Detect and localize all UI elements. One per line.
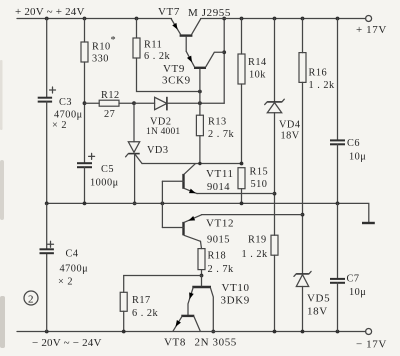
node: C3 tap on input rail (45, 17, 49, 21)
svg-text:10μ: 10μ (349, 287, 366, 298)
node: VT11 emitter junction on VD4/R19 column (273, 192, 277, 196)
svg-text:1 . 2k: 1 . 2k (242, 249, 269, 260)
resistor R15 510 (238, 167, 268, 204)
transistor VT9 3CK9 (162, 51, 224, 103)
wire: VT11/VT12 base link (161, 181, 163, 227)
node: R18 bottom / VT10 base junction (200, 274, 204, 278)
svg-text:18V: 18V (307, 306, 328, 318)
resistor R10 330 (81, 19, 116, 65)
svg-text:R17: R17 (132, 295, 151, 306)
svg-text:R10: R10 (92, 42, 111, 53)
node: R10 tap on input rail (83, 17, 87, 21)
svg-text:2: 2 (28, 294, 34, 306)
svg-text:C5: C5 (101, 164, 114, 175)
node: R12/VD2/VD3 junction (132, 101, 136, 105)
wire: R17 feed from VT10 base node (124, 275, 202, 277)
wire: VD4 column from output rail (274, 19, 276, 102)
svg-text:9015: 9015 (207, 235, 230, 246)
svg-text:6 . 2k: 6 . 2k (132, 308, 159, 319)
svg-text:R14: R14 (248, 57, 267, 68)
svg-text:4700μ: 4700μ (54, 110, 83, 121)
svg-text:18V: 18V (281, 131, 300, 142)
wire: C6 column from output rail (337, 19, 339, 141)
resistor R13 2.7k (196, 103, 234, 163)
resistor R14 10k (238, 19, 267, 164)
node: bottom rail at C4 (45, 330, 49, 334)
svg-text:2N 3055: 2N 3055 (195, 337, 237, 349)
svg-text:*: * (111, 35, 117, 46)
wire: top-left +24V input rail (17, 18, 172, 20)
capacitor C6 10u (330, 138, 366, 163)
terminal: -17V (356, 329, 387, 351)
node: bus / R14 / R15 junction (240, 162, 244, 166)
wire: C5 bottom to center rail (84, 167, 86, 203)
capacitor C5 1000u (77, 153, 119, 188)
svg-text:VT11: VT11 (206, 168, 234, 180)
node: riser at output rail (222, 17, 226, 21)
svg-text:VT7: VT7 (158, 6, 180, 18)
svg-text:− 20V ~ − 24V: − 20V ~ − 24V (32, 337, 102, 349)
svg-text:10k: 10k (249, 70, 266, 81)
resistor R12 27 (85, 90, 135, 120)
svg-text:27: 27 (104, 109, 115, 120)
svg-text:9014: 9014 (207, 182, 230, 193)
node: bottom rail at VD5 (301, 330, 305, 334)
wire: bottom rail (17, 331, 366, 333)
svg-text:M J2955: M J2955 (188, 7, 231, 19)
svg-text:3CK9: 3CK9 (162, 75, 191, 87)
diode VD2 1N4001 (134, 97, 180, 137)
svg-text:VT10: VT10 (222, 282, 250, 294)
svg-text:VD3: VD3 (147, 145, 169, 156)
wire: C3 bottom to center rail (46, 102, 48, 204)
wire: VT11 emitter to VD4/R19 junction (197, 193, 275, 195)
svg-text:1N 4001: 1N 4001 (146, 127, 180, 137)
svg-text:6 . 2k: 6 . 2k (144, 51, 171, 62)
node: R11 tap on input rail (135, 17, 139, 21)
svg-text:1 . 2k: 1 . 2k (309, 80, 336, 91)
svg-text:R15: R15 (250, 167, 269, 178)
svg-text:− 17V: − 17V (356, 339, 387, 351)
svg-text:VD2: VD2 (150, 117, 172, 128)
node: VT9 base / R13 top junction (198, 101, 202, 105)
wire: VD3 cathode to collector bus (135, 154, 143, 164)
node: center rail at R15 (240, 202, 244, 206)
svg-text:VD4: VD4 (279, 120, 301, 131)
node: bottom rail at C7 (336, 330, 340, 334)
resistor R11 6.2k (133, 19, 171, 63)
wire: C3 column from input rail (46, 19, 48, 98)
node: center rail at C6/C7 (336, 202, 340, 206)
terminal: +17V (356, 16, 387, 37)
wire: VD3 anode drop (133, 103, 135, 142)
node: center rail at C3/C4 column (45, 202, 49, 206)
node: R13 bottom on collector bus (198, 162, 201, 165)
wire: C4 bottom to bottom rail (46, 253, 48, 331)
svg-text:C3: C3 (59, 97, 72, 108)
wire: riser x224 from output rail down to VD2 wire (223, 19, 225, 104)
svg-text:× 2: × 2 (52, 120, 67, 131)
svg-text:VT12: VT12 (206, 218, 234, 230)
wire: C6 bottom to center rail (337, 144, 339, 203)
node: VT9 collector junction on riser (222, 50, 226, 54)
wire: top-right +17V output rail (201, 18, 366, 20)
resistor R19 1.2k (242, 235, 279, 332)
svg-text:R12: R12 (101, 90, 120, 101)
node: R14 tap on output rail (240, 17, 244, 21)
svg-text:R11: R11 (144, 40, 162, 51)
node: R16 tap on output rail (301, 17, 305, 21)
svg-text:2 . 7k: 2 . 7k (208, 129, 235, 140)
node: C6 tap on output rail (336, 17, 340, 21)
ground (362, 222, 375, 224)
wire: VT12 emitter to R16/VD5 junction (202, 214, 303, 216)
svg-text:VD5: VD5 (307, 293, 330, 305)
node: bottom rail at R17 (122, 330, 126, 334)
node: VT10 collector at bottom rail (211, 330, 215, 334)
svg-text:510: 510 (251, 179, 268, 190)
node: center rail at base link (161, 202, 165, 206)
capacitor C7 10u (330, 203, 366, 331)
svg-text:× 2: × 2 (58, 277, 73, 288)
node: VD4 tap on output rail (273, 17, 277, 21)
node: VT12 emitter junction on R16/VD5 column (301, 213, 305, 217)
wire: R10 bottom to R12 node and C5 (84, 62, 86, 163)
svg-text:C7: C7 (347, 274, 360, 285)
svg-text:R19: R19 (248, 235, 267, 246)
node: bottom rail at R19 (273, 330, 277, 334)
wire: VD2 cathode to x224 riser (167, 102, 224, 104)
node: R12 left junction (83, 101, 87, 105)
resistor R18 2.7k (198, 241, 234, 275)
transistor VT7 MJ2955 (158, 6, 231, 51)
node: R11 wire to VT9 base junction (198, 90, 202, 94)
svg-text:+ 17V: + 17V (356, 24, 387, 36)
resistor R16 1.2k (299, 19, 335, 274)
capacitor C3 4700u x2 (38, 87, 83, 131)
svg-text:+ 20V ~ + 24V: + 20V ~ + 24V (15, 6, 85, 18)
svg-text:4700μ: 4700μ (60, 264, 89, 275)
wire: center rail to C4 top (46, 203, 48, 249)
svg-text:R18: R18 (208, 251, 227, 262)
wire: VD4 anode down to R19 (274, 113, 276, 236)
zener diode VD5 18V (294, 271, 330, 317)
svg-text:3DK9: 3DK9 (221, 295, 250, 307)
svg-text:C4: C4 (66, 249, 79, 260)
svg-text:2 . 7k: 2 . 7k (208, 264, 235, 275)
diode VD3 (126, 142, 169, 157)
transistor VT12 9015 (162, 215, 234, 246)
transistor VT11 9014 (162, 164, 233, 196)
svg-text:1000μ: 1000μ (90, 178, 119, 189)
node: VD3 wire at center rail (133, 202, 137, 206)
wire: VD5 anode to bottom rail (302, 287, 304, 332)
wire: VT11 collector bus (142, 163, 242, 165)
scan smudge left edge (0, 60, 5, 348)
zener diode VD4 18V (265, 99, 301, 141)
label: circled 2 schematic number (24, 291, 38, 306)
svg-text:330: 330 (92, 54, 109, 65)
svg-text:VT8: VT8 (164, 337, 186, 349)
transistor VT8 2N3055 (164, 316, 237, 349)
svg-text:10μ: 10μ (349, 152, 366, 163)
node: center rail at C5 (83, 202, 87, 206)
wire: center rail to ground (47, 203, 369, 222)
wire: VD3 cathode down to center rail (134, 154, 136, 204)
svg-text:C6: C6 (347, 138, 360, 149)
capacitor C4 4700u x2 (40, 241, 89, 287)
svg-text:VT9: VT9 (163, 63, 185, 75)
svg-text:R13: R13 (208, 117, 227, 128)
resistor R17 6.2k (120, 276, 158, 332)
transistor VT10 3DK9 (187, 276, 250, 332)
svg-text:R16: R16 (309, 68, 328, 79)
wire: R11 bottom to VT9 base (137, 58, 200, 92)
